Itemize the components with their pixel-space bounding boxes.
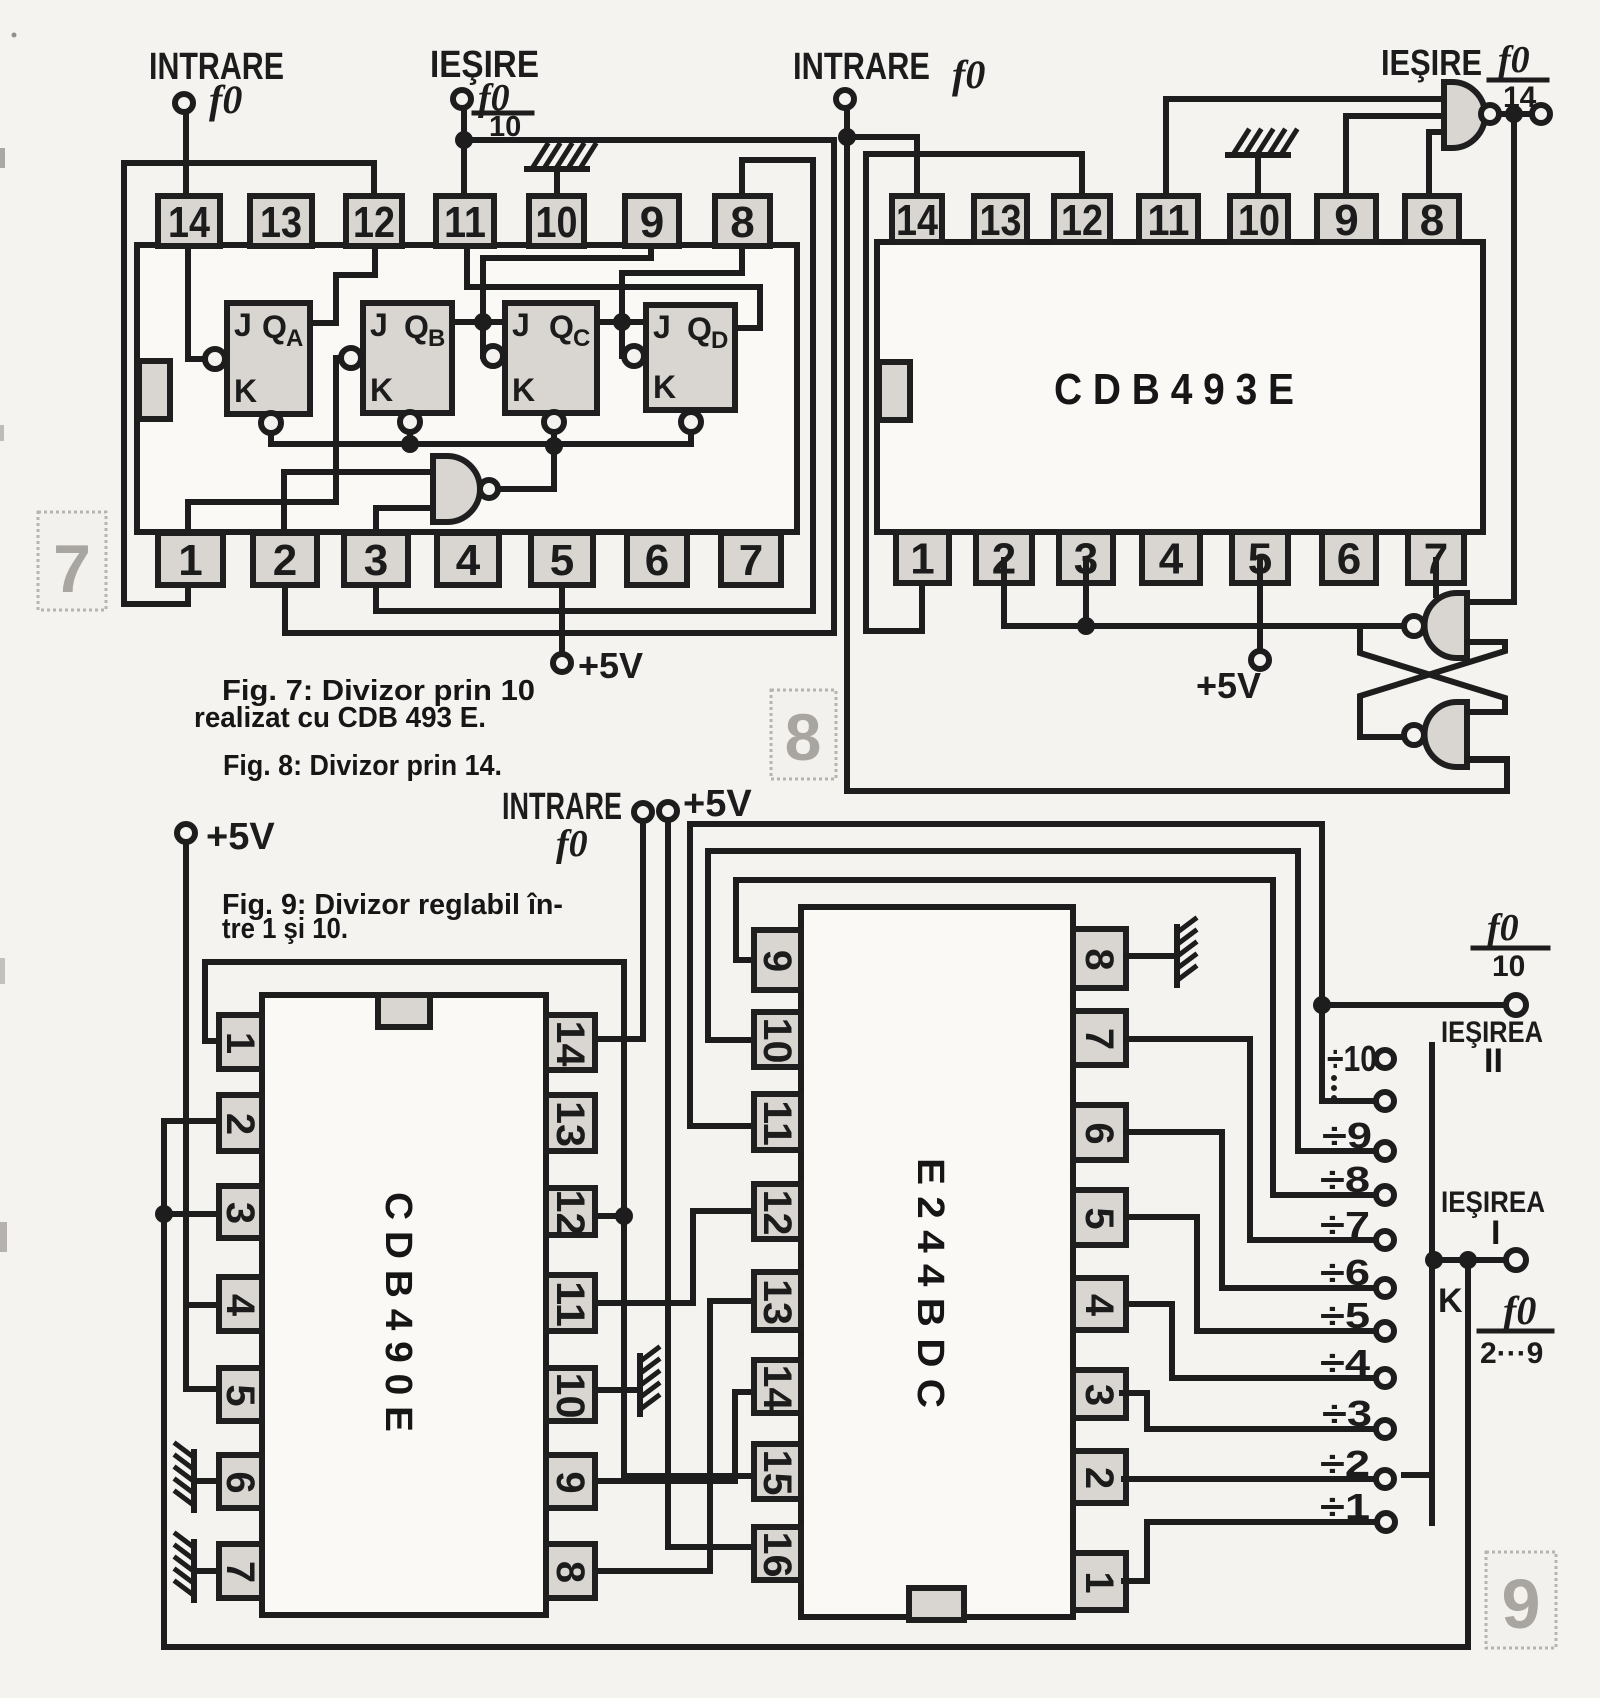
pin 1 (CDB490 left) <box>219 1015 262 1069</box>
svg-text:K: K <box>234 373 257 409</box>
svg-text:6: 6 <box>1077 1122 1121 1144</box>
flip-flop QB (JK) <box>341 303 452 432</box>
pin 3 (fig.7 bottom) <box>344 533 408 585</box>
svg-text:tre 1 şi 10.: tre 1 şi 10. <box>222 913 348 945</box>
wire loop pin12 - pin1 (fig.7) <box>124 163 374 604</box>
pin 13 (CDB490 right) <box>546 1095 595 1151</box>
node divider jack ÷7 <box>1376 1231 1394 1249</box>
svg-text:15: 15 <box>755 1450 799 1496</box>
svg-text:14: 14 <box>168 198 210 247</box>
svg-text:1: 1 <box>218 1032 262 1054</box>
wire pin8 CDB490 to pin13 CDB442 <box>595 1301 754 1571</box>
wire QB Q up to pin 9 <box>483 246 651 322</box>
wire common K line linking FF bottom bubbles <box>271 432 691 444</box>
svg-text:5: 5 <box>550 536 574 585</box>
pin 9 (CDB490 right) <box>546 1455 595 1508</box>
svg-text:÷2: ÷2 <box>1320 1443 1370 1484</box>
svg-text:J: J <box>512 307 530 343</box>
svg-text:J: J <box>234 307 252 343</box>
svg-text:÷10: ÷10 <box>1327 1038 1377 1079</box>
svg-text:C: C <box>573 325 590 352</box>
wire pins 2,3 to latch reset line <box>1004 560 1403 626</box>
pin 10 (CDB490 right) <box>546 1368 595 1421</box>
svg-text:2: 2 <box>218 1113 262 1135</box>
pin 14 (CDB442 left) <box>754 1360 801 1413</box>
wire +5V down to pin 16 of CDB442 <box>668 820 749 1547</box>
wire pin8 CDB442 to ground <box>1126 953 1177 959</box>
svg-text:5: 5 <box>1077 1207 1121 1229</box>
wire pin4 CDB442 to divide-4 jack <box>1126 1304 1375 1378</box>
pin 9 (fig.7 top) <box>625 196 679 246</box>
svg-text:8: 8 <box>1077 948 1121 970</box>
pin 12 (CDB490 right) <box>546 1188 595 1235</box>
svg-text:4: 4 <box>456 536 481 585</box>
wire bridge B1: CDB442 pin11 to f0/10 node <box>690 824 1375 1126</box>
svg-text:11: 11 <box>755 1100 799 1146</box>
pin 11 (fig.7 top) <box>436 196 494 246</box>
pin 8 (fig.7 top) <box>715 196 770 246</box>
tag figure 8 <box>771 690 836 779</box>
svg-text:8: 8 <box>785 700 822 774</box>
svg-text:D: D <box>711 327 728 354</box>
pin 9 (CDB442 left) <box>754 930 801 990</box>
svg-text:10: 10 <box>1492 950 1525 983</box>
svg-text:3: 3 <box>1077 1384 1121 1406</box>
svg-text:9: 9 <box>1334 196 1358 245</box>
pin 15 (CDB442 left) <box>754 1444 801 1499</box>
svg-text:A: A <box>286 325 303 352</box>
ground (left of pin 7, CDB490) <box>196 1568 215 1574</box>
pin 11 (fig.8 top) <box>1139 196 1198 242</box>
wire pin2 to NAND input 1 <box>284 472 433 532</box>
svg-text:f0: f0 <box>1503 1288 1536 1333</box>
node IESIRE f0/10 (fig.7 output terminal) <box>453 90 471 108</box>
pin 8 (fig.8 top) <box>1405 196 1459 242</box>
ground (above pin 10, fig.8) <box>1228 152 1288 158</box>
wire pin6 CDB442 to divide-6 jack <box>1126 1132 1375 1288</box>
svg-text:10: 10 <box>1238 196 1280 245</box>
svg-text:13: 13 <box>755 1279 799 1325</box>
pin 2 (CDB442 right) <box>1073 1451 1126 1503</box>
ground (left of pin 6, CDB490) <box>196 1478 215 1484</box>
wire bridge B2: CDB442 pin10 to divide-9 jack <box>708 851 1375 1151</box>
node +5V terminal (fig.7) <box>553 654 571 672</box>
svg-text:9: 9 <box>640 198 664 247</box>
svg-text:K: K <box>1438 1282 1463 1320</box>
svg-text:÷3: ÷3 <box>1322 1393 1372 1434</box>
svg-text:IEŞIRE: IEŞIRE <box>1381 42 1482 83</box>
wire QC Q up to pin 8 <box>622 246 742 322</box>
svg-text:2···9: 2···9 <box>1480 1337 1543 1370</box>
ground (above pin 10, fig.7) <box>527 166 587 172</box>
pin 7 (fig.8 bottom) <box>1408 532 1464 583</box>
svg-text:8: 8 <box>1420 196 1444 245</box>
svg-text:11: 11 <box>1148 196 1190 245</box>
pin 7 (CDB490 left) <box>219 1544 262 1598</box>
svg-text:f0: f0 <box>1498 39 1530 81</box>
svg-text:Fig. 8: Divizor prin 14.: Fig. 8: Divizor prin 14. <box>223 750 502 782</box>
pin 13 (CDB442 left) <box>754 1272 801 1330</box>
IC body CDB 442 E <box>801 907 1073 1617</box>
svg-text:9: 9 <box>755 950 799 972</box>
svg-text:12: 12 <box>548 1190 592 1236</box>
wire +5V rail to pins 4,5 of CDB490 <box>186 842 215 1389</box>
svg-text:I: I <box>1491 1214 1500 1252</box>
node divider jack ÷4 <box>1376 1369 1394 1387</box>
svg-text:Q: Q <box>687 311 712 347</box>
wire pin7 CDB442 to divide-7 jack <box>1126 1039 1375 1240</box>
svg-text:11: 11 <box>444 198 486 247</box>
pin 4 (fig.8 bottom) <box>1142 532 1200 583</box>
IC body CDB 493 E (fig.8) <box>877 242 1483 532</box>
index notch tab on left edge (fig.8) <box>879 362 910 420</box>
node divider jack ÷6 <box>1376 1279 1394 1297</box>
pin 16 (CDB442 left) <box>754 1527 801 1580</box>
wire pin1 to QB clock <box>188 358 339 532</box>
index notch tab on left edge (fig.7) <box>139 361 170 419</box>
wire INTRARE to pin14 <box>183 112 189 240</box>
svg-text:6: 6 <box>218 1471 262 1493</box>
pin 2 (CDB490 left) <box>219 1095 262 1151</box>
pin 1 (CDB442 right) <box>1073 1553 1126 1610</box>
flip-flop QA (JK) <box>205 303 310 433</box>
svg-text:7: 7 <box>1077 1028 1121 1050</box>
wire pin12 of CDB490 joins vertical <box>593 1213 624 1219</box>
pin 1 (fig.8 bottom) <box>896 532 949 583</box>
node INTRARE f0 (fig.7 input terminal) <box>175 94 193 112</box>
node IESIREA I terminal <box>1506 1250 1526 1270</box>
wire pin10 CDB490 to ground <box>595 1387 637 1393</box>
wire pin2 CDB442 to divide-2 jack <box>1124 1476 1375 1482</box>
pin 14 (CDB490 right) <box>546 1015 595 1070</box>
node divider jack ÷2 <box>1376 1470 1394 1488</box>
wire INTRARE down and to pin14 (fig.8) <box>847 108 917 240</box>
pin 13 (fig.8 top) <box>974 196 1027 242</box>
pin 3 (fig.8 bottom) <box>1059 532 1113 583</box>
svg-text:Q: Q <box>262 309 287 345</box>
wire pin 11 to QD Q output <box>467 246 760 328</box>
svg-text:7: 7 <box>53 531 91 607</box>
wire latch lower gate bottom to INTRARE bus <box>1467 756 1507 762</box>
svg-text:÷9: ÷9 <box>1322 1115 1372 1156</box>
svg-text:7: 7 <box>739 536 763 585</box>
svg-text:12: 12 <box>755 1190 799 1236</box>
paper edge smudges <box>0 148 5 168</box>
node divider jack ÷9 <box>1376 1142 1394 1160</box>
svg-text:f0: f0 <box>1487 907 1519 949</box>
wire loop pin12 - pin1 (fig.8) <box>866 154 1082 631</box>
wire IESIRE net to pin 2 of fig.7 (right, down, left, up) <box>285 140 834 633</box>
pin 1 (fig.7 bottom) <box>158 533 223 585</box>
svg-text:4: 4 <box>1159 534 1184 583</box>
pin 8 (CDB442 right) <box>1073 929 1126 988</box>
svg-text:÷6: ÷6 <box>1320 1252 1370 1293</box>
svg-text:14: 14 <box>896 196 938 245</box>
pin 14 (fig.7 top) <box>158 196 220 246</box>
node +5V terminal (fig.9 left) <box>177 824 195 842</box>
wire selector bus K (IESIREA I) <box>1429 1045 1435 1523</box>
pin 3 (CDB490 left) <box>219 1186 262 1238</box>
pin 10 (fig.7 top) <box>529 196 584 246</box>
node IESIRE f0/14 terminal <box>1532 105 1550 123</box>
svg-text:5: 5 <box>218 1384 262 1406</box>
wire NAND output up to K line <box>499 446 554 489</box>
svg-text:14: 14 <box>755 1365 799 1412</box>
svg-text:8: 8 <box>730 198 754 247</box>
svg-text:6: 6 <box>645 536 669 585</box>
node divider jack ÷8 <box>1376 1186 1394 1204</box>
flip-flop QD (JK) <box>624 305 735 432</box>
IC body CDB493E (fig.7) <box>137 245 797 532</box>
pin 3 (CDB442 right) <box>1073 1370 1126 1418</box>
svg-text:B: B <box>428 325 445 352</box>
wire +5V from pin 5 (fig.7) <box>559 560 565 655</box>
svg-text:4: 4 <box>1077 1294 1121 1317</box>
wire QC Q to QD clock, junction <box>597 322 646 356</box>
wire f0/14 node down right side to latch top input <box>1467 114 1514 602</box>
wire INTRARE long vertical to latch bottom <box>847 137 1507 791</box>
pin 8 (CDB490 right) <box>546 1544 595 1598</box>
svg-text:INTRARE: INTRARE <box>793 46 930 88</box>
wire pin3 to NAND input 2 <box>376 508 433 532</box>
svg-text:E 2 4 4 B D C: E 2 4 4 B D C <box>909 1158 951 1408</box>
pin 5 (CDB442 right) <box>1073 1190 1126 1245</box>
node INTRARE f0 (fig.8 input terminal) <box>836 90 854 108</box>
pin 13 (fig.7 top) <box>250 196 312 246</box>
svg-text:1: 1 <box>1077 1571 1121 1593</box>
pin 5 (fig.7 bottom) <box>531 533 593 585</box>
wire latch cross-coupling <box>1360 642 1505 737</box>
svg-text:10: 10 <box>536 198 578 247</box>
svg-text:1: 1 <box>178 536 202 585</box>
pin 5 (CDB490 left) <box>219 1368 262 1421</box>
pin 6 (fig.7 bottom) <box>627 533 687 585</box>
svg-text:16: 16 <box>755 1532 799 1578</box>
NAND gate U2 (3-input, IESIRE f0/14) <box>1444 82 1499 148</box>
wire pin8 to NAND low input <box>1429 132 1448 200</box>
pin 14 (fig.8 top) <box>892 196 942 242</box>
pin 7 (CDB442 right) <box>1073 1011 1126 1065</box>
wire pin1 CDB442 to divide-1 jack <box>1124 1522 1375 1581</box>
IC body CDB 490 E <box>262 995 546 1615</box>
svg-text:2: 2 <box>1077 1467 1121 1489</box>
svg-text:K: K <box>653 369 676 405</box>
svg-text:f0: f0 <box>952 52 985 97</box>
pin 2 (fig.7 bottom) <box>253 533 317 585</box>
wire bridge B3: CDB442 pin9 to divide-8 jack <box>736 880 1375 1195</box>
svg-text:13: 13 <box>980 196 1022 245</box>
svg-text:9: 9 <box>1502 1565 1541 1643</box>
svg-text:3: 3 <box>218 1202 262 1224</box>
pin 9 (fig.8 top) <box>1317 196 1376 242</box>
wire QB Q to QC clock, junction <box>452 322 505 356</box>
node +5V terminal (fig.9 mid) <box>659 802 677 820</box>
svg-text:K: K <box>512 372 535 408</box>
svg-text:realizat cu CDB 493 E.: realizat cu CDB 493 E. <box>194 702 486 734</box>
svg-text:2: 2 <box>273 536 297 585</box>
wire pin14 to QA clock <box>188 246 204 359</box>
node divider jack ÷3 <box>1376 1420 1394 1438</box>
node divider jack ÷10 <box>1376 1050 1394 1068</box>
pin 12 (fig.7 top) <box>346 196 402 246</box>
svg-text:7: 7 <box>218 1561 262 1583</box>
svg-text:J: J <box>370 307 388 343</box>
svg-text:+5V: +5V <box>683 783 752 825</box>
NAND gate U4 (latch lower, faces left) <box>1404 702 1467 767</box>
pin 2 (fig.8 bottom) <box>976 532 1032 583</box>
tag figure 7 <box>38 512 106 610</box>
svg-text:12: 12 <box>353 198 395 247</box>
pin 6 (fig.8 bottom) <box>1322 532 1376 583</box>
tag figure 9 <box>1486 1552 1556 1648</box>
pin 10 (fig.8 top) <box>1230 196 1288 242</box>
pin 7 (fig.7 bottom) <box>721 533 781 585</box>
pin 10 (CDB442 left) <box>754 1012 801 1067</box>
svg-text:÷4: ÷4 <box>1320 1342 1370 1383</box>
node f0/10 output (IESIREA II) <box>1313 996 1331 1014</box>
pin 6 (CDB490 left) <box>219 1455 262 1508</box>
svg-text:÷8: ÷8 <box>1320 1159 1370 1200</box>
wire INTRARE f0 down to pin 14 of CDB490 <box>592 821 643 1039</box>
svg-text:12: 12 <box>1061 196 1103 245</box>
wire pin11 to NAND top input <box>1166 99 1448 200</box>
wire NAND out to terminal and down to latch <box>1499 111 1530 117</box>
node divider jack ÷1 <box>1377 1513 1395 1531</box>
svg-text:Q: Q <box>404 309 429 345</box>
svg-text:+5V: +5V <box>206 816 275 858</box>
svg-text:Q: Q <box>549 309 574 345</box>
wire IESIRE vertical to pin 11 <box>461 108 467 240</box>
wire reset rail pins 2,3 CDB490 to bottom bus <box>164 1121 1468 1647</box>
wire pin 7 stub to latch gate <box>1433 560 1439 595</box>
wire pin1-pin12 top link (CDB490) <box>205 962 749 1476</box>
wire pin5 CDB442 to divide-5 jack <box>1126 1217 1375 1331</box>
svg-text:INTRARE: INTRARE <box>502 786 622 828</box>
wire loop pin8 - pin3 (fig.7) <box>376 160 813 611</box>
svg-text:8: 8 <box>548 1561 592 1583</box>
pin 5 (fig.8 bottom) <box>1232 532 1288 583</box>
svg-text:+5V: +5V <box>1196 665 1261 706</box>
pin 4 (CDB490 left) <box>219 1277 262 1331</box>
svg-text:11: 11 <box>548 1281 592 1327</box>
svg-text:10: 10 <box>548 1373 592 1419</box>
ellipsis dots under divide-10 <box>1331 1075 1337 1081</box>
svg-text:+5V: +5V <box>578 645 643 686</box>
pin 12 (CDB442 left) <box>754 1184 801 1239</box>
svg-text:4: 4 <box>218 1294 262 1317</box>
svg-text:II: II <box>1484 1042 1503 1080</box>
svg-text:f0: f0 <box>556 823 588 865</box>
svg-text:C D B 4 9 3 E: C D B 4 9 3 E <box>1054 365 1294 414</box>
svg-text:6: 6 <box>1337 534 1361 583</box>
svg-text:÷1: ÷1 <box>1320 1486 1370 1527</box>
svg-text:1: 1 <box>910 534 934 583</box>
pin 6 (CDB442 right) <box>1073 1105 1126 1160</box>
wire pin9 to NAND mid input <box>1346 116 1448 200</box>
node divider jack ÷5 <box>1376 1322 1394 1340</box>
node +5V terminal (fig.8) <box>1251 651 1269 669</box>
svg-text:13: 13 <box>548 1101 592 1147</box>
svg-text:14: 14 <box>1503 81 1537 114</box>
svg-text:C D B 4 9 0 E: C D B 4 9 0 E <box>377 1192 419 1432</box>
svg-text:÷7: ÷7 <box>1320 1204 1370 1245</box>
NAND gate U3 (latch upper, faces left) <box>1404 593 1467 658</box>
wire pin11 CDB490 to pin12 CDB442 <box>595 1211 754 1303</box>
svg-text:14: 14 <box>548 1021 592 1068</box>
svg-text:13: 13 <box>260 198 302 247</box>
NAND gate U1 (fig.7 reset gate) <box>433 456 498 522</box>
pin 4 (fig.7 bottom) <box>437 533 499 585</box>
pin 11 (CDB490 right) <box>546 1275 595 1331</box>
pin 11 (CDB442 left) <box>754 1094 801 1150</box>
wire pin3 CDB442 to divide-3 jack <box>1122 1393 1375 1429</box>
svg-text:÷5: ÷5 <box>1320 1295 1370 1336</box>
flip-flop QC (JK) <box>483 303 597 432</box>
wire QA Q output to pin 12 <box>310 246 375 323</box>
svg-text:3: 3 <box>364 536 388 585</box>
pin 4 (CDB442 right) <box>1073 1278 1126 1330</box>
node divider jack unlabeled <box>1376 1092 1394 1110</box>
svg-text:K: K <box>370 372 393 408</box>
svg-text:J: J <box>653 309 671 345</box>
pin 12 (fig.8 top) <box>1054 196 1110 242</box>
wire pin9 CDB490 to pin14 CDB442 <box>595 1392 749 1481</box>
wire +5V from pin 5 (fig.8) <box>1257 560 1263 651</box>
svg-text:f0: f0 <box>209 77 242 122</box>
svg-text:9: 9 <box>548 1471 592 1493</box>
svg-text:10: 10 <box>755 1018 799 1064</box>
